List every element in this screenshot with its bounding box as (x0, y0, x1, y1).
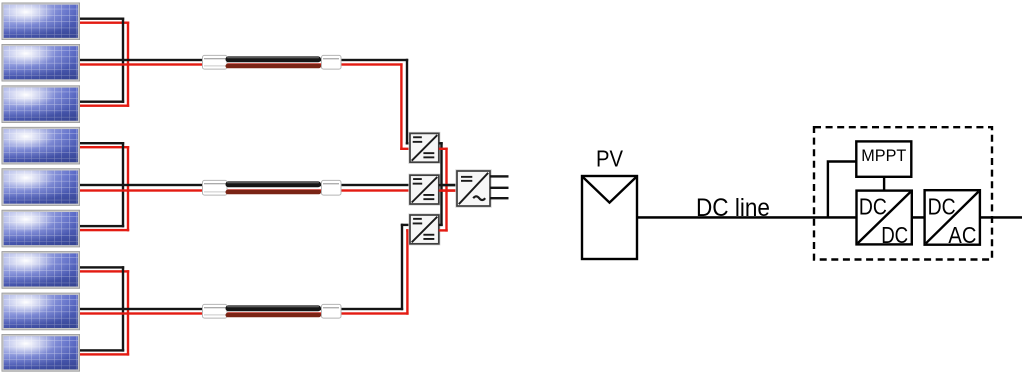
wire P6 red out (80, 229, 129, 231)
group 3 black rise (401, 224, 403, 311)
PV panel symbol (582, 176, 637, 259)
cable connector left group 3 (203, 304, 228, 318)
solar panel P7 (2, 251, 81, 289)
DC/DC block (857, 191, 912, 249)
group 3 red line (80, 312, 409, 314)
cable bundle group 3 (red core) (226, 313, 322, 318)
group 1 red line (80, 63, 403, 65)
wire P3 red out (80, 105, 129, 107)
DC/AC block (925, 190, 980, 248)
group 3 black bus (122, 266, 124, 351)
DC/DC to DC/AC wire (912, 216, 925, 219)
MPPT tap wire (828, 162, 856, 218)
block1 red out (439, 148, 448, 150)
block3 black stub (401, 224, 410, 226)
solar panel P2 (2, 44, 81, 82)
group 3 red rise (406, 229, 408, 315)
group 1 red bus (127, 22, 129, 107)
block1 red stub (400, 148, 410, 150)
svg-text:MPPT: MPPT (861, 146, 906, 165)
wire P3 black out (80, 101, 124, 103)
cable connector right group 1 (322, 55, 342, 69)
inverter AC output 2 (490, 187, 509, 189)
collector red bus (445, 148, 447, 232)
wire P7 red out (80, 270, 129, 272)
group 1 black drop (406, 59, 408, 145)
solar panel P6 (2, 210, 81, 248)
cable bundle group 2 (red core) (226, 190, 322, 195)
block1 black stub (406, 142, 410, 144)
wire P9 red out (80, 353, 129, 355)
svg-text:DC: DC (928, 194, 956, 220)
MPPT block (856, 141, 911, 176)
group 3 black line (80, 308, 403, 310)
group 2 red bus (127, 146, 129, 231)
solar panel P5 (2, 168, 81, 206)
svg-text:AC: AC (948, 222, 976, 248)
dashed converter enclosure (814, 127, 992, 259)
svg-text:DC: DC (881, 222, 908, 248)
AC output wire (980, 216, 1022, 219)
solar panel P1 (2, 3, 81, 41)
wire P1 red out (80, 22, 129, 24)
wire P4 red out (80, 146, 129, 148)
solar panel P8 (2, 293, 81, 331)
wire P7 black out (80, 266, 124, 268)
group 2 red line (80, 189, 458, 191)
wire P9 black out (80, 349, 124, 351)
block2 red out (439, 189, 457, 191)
DC/DC converter block 3 (409, 214, 440, 245)
block3 red out (439, 229, 448, 231)
inverter AC output 3 (490, 197, 509, 199)
collector black bus (440, 142, 442, 226)
svg-text:DC: DC (859, 194, 887, 220)
cable connector right group 3 (322, 304, 342, 318)
block3 black out (439, 224, 443, 226)
cable connector left group 1 (203, 55, 228, 69)
solar panel P4 (2, 127, 81, 164)
block1 black out (439, 142, 443, 144)
block3 red stub (406, 229, 410, 231)
svg-text:PV: PV (596, 146, 624, 172)
DC/DC converter block 1 (409, 132, 440, 163)
MPPT to DC/DC wire (883, 177, 885, 191)
cable bundle group 1 (black core) (226, 56, 322, 62)
block2 black out (439, 184, 457, 186)
group 3 red bus (127, 270, 129, 355)
DC/DC converter block 2 (409, 174, 440, 205)
wire P6 black out (80, 225, 124, 227)
group 2 black line (80, 184, 458, 186)
solar panel P3 (2, 85, 81, 123)
group 1 red drop (400, 63, 402, 150)
wire P4 black out (80, 142, 124, 144)
inverter AC output 1 (490, 175, 509, 177)
DC/AC inverter block (456, 170, 491, 207)
solar panel P9 (2, 334, 81, 372)
cable connector right group 2 (322, 180, 342, 195)
cable bundle group 2 (black core) (226, 181, 322, 187)
cable connector left group 2 (203, 180, 228, 195)
cable bundle group 3 (black core) (226, 305, 322, 311)
group 2 black bus (122, 142, 124, 227)
group 1 black bus (122, 18, 124, 103)
group 1 black line (80, 59, 408, 61)
cable bundle group 1 (red core) (226, 64, 322, 69)
wire P1 black out (80, 18, 124, 20)
DC line wire (637, 216, 857, 219)
